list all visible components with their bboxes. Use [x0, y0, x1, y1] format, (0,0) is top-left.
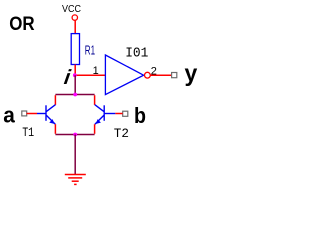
svg-text:T2: T2 — [114, 126, 129, 141]
svg-text:VCC: VCC — [62, 4, 81, 15]
svg-text:I01: I01 — [125, 46, 148, 62]
wire b to T2 base — [115, 113, 122, 115]
svg-text:R1: R1 — [85, 43, 95, 57]
transistor T1 — [37, 105, 55, 125]
T1 emitter arrow — [49, 119, 54, 124]
wire T1 collector up — [54, 95, 56, 105]
wire T2 emitter down — [94, 124, 96, 134]
wire emitter rail to ground — [74, 135, 76, 175]
svg-text:a: a — [3, 102, 15, 127]
input terminal square a — [22, 111, 27, 116]
T2 emitter arrow — [96, 119, 101, 124]
inverter output bubble — [145, 72, 151, 78]
output terminal square y — [172, 73, 177, 78]
svg-text:b: b — [134, 103, 146, 128]
wire a to T1 base — [27, 113, 38, 115]
svg-text:T1: T1 — [22, 126, 34, 140]
wire VCC to resistor — [74, 21, 76, 34]
svg-text:y: y — [185, 60, 198, 86]
wire resistor to node i — [74, 65, 76, 76]
VCC power terminal circle — [72, 15, 77, 20]
resistor R1 body — [71, 34, 79, 65]
wire T2 collector up — [94, 95, 96, 105]
svg-text:1: 1 — [93, 65, 99, 77]
inverter I01 triangle — [105, 55, 143, 95]
wire bubble to output terminal — [150, 74, 171, 76]
svg-text:OR: OR — [9, 13, 34, 35]
ground — [65, 175, 86, 185]
input terminal square b — [123, 111, 128, 116]
wire node i down to collector rail — [74, 75, 76, 94]
junction dot collector rail — [73, 93, 77, 97]
wire node i to inverter input — [75, 74, 105, 76]
wire T1 emitter down — [54, 124, 56, 134]
junction dot node i — [73, 73, 77, 77]
junction dot emitter rail — [73, 133, 77, 137]
collector rail (node i net) — [55, 94, 94, 96]
emitter rail — [55, 134, 94, 136]
transistor T2 (mirrored) — [95, 105, 116, 125]
